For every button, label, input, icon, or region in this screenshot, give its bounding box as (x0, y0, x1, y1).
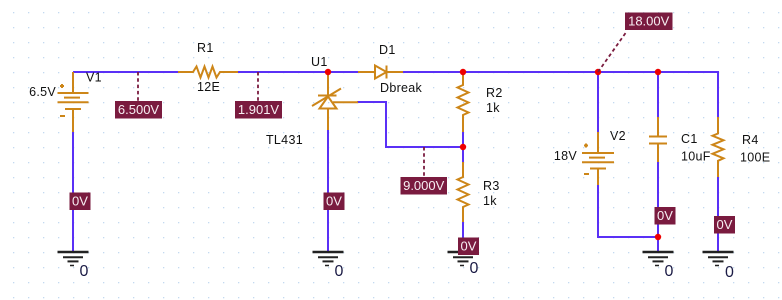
svg-text:0: 0 (725, 264, 734, 281)
svg-text:9.000V: 9.000V (403, 178, 445, 193)
capacitor C1 (649, 117, 667, 162)
resistor R4 (713, 117, 724, 177)
battery V2 (582, 132, 614, 185)
ground C1 (643, 252, 674, 266)
probe label 1.901V (235, 101, 282, 119)
svg-text:0: 0 (470, 260, 479, 277)
node V2-C1 bottom junction (655, 234, 661, 240)
svg-text:1k: 1k (483, 194, 497, 208)
resistor R1 (178, 67, 238, 78)
probe label 6.500V (115, 101, 162, 119)
svg-text:12E: 12E (197, 80, 220, 94)
probe label 0V (R3) (458, 238, 479, 256)
wire V2 top (597, 72, 599, 132)
node U1 cathode on rail (325, 69, 331, 75)
probe dashed lead 1.901V (257, 72, 259, 101)
svg-text:Dbreak: Dbreak (380, 81, 423, 95)
diode D1 (358, 66, 403, 79)
wire U1 ref to R2-R3 node (357, 102, 463, 147)
wire V2 bottom to node under C1 (598, 185, 658, 237)
wire rail V1 to R1 (73, 71, 178, 73)
svg-text:R2: R2 (486, 86, 503, 100)
svg-text:R4: R4 (742, 133, 759, 147)
svg-text:0V: 0V (326, 194, 342, 209)
battery V1 (58, 72, 89, 132)
svg-text:6.500V: 6.500V (118, 102, 160, 117)
probe label 0V (V1) (70, 193, 91, 211)
resistor R3 (458, 162, 469, 222)
svg-text:10uF: 10uF (681, 150, 711, 164)
wire R2 to R3 through node (462, 132, 464, 162)
wire main rail top (73, 72, 718, 251)
wire R3 to ground (462, 222, 464, 251)
svg-text:0V: 0V (72, 194, 88, 209)
wire rail R1 to D1 (238, 71, 358, 73)
probe label 0V (U1) (324, 193, 345, 211)
svg-text:18V: 18V (554, 149, 578, 163)
svg-text:D1: D1 (379, 43, 396, 57)
svg-text:6.5V: 6.5V (29, 85, 56, 99)
ground U1 (313, 252, 344, 266)
wire C1 top (657, 72, 659, 117)
svg-text:C1: C1 (681, 132, 698, 146)
probe label 9.000V (401, 177, 448, 195)
svg-text:0V: 0V (717, 217, 733, 232)
wire V1 to ground (72, 132, 74, 251)
svg-text:R1: R1 (197, 41, 214, 55)
svg-text:0: 0 (665, 263, 674, 280)
svg-text:18.00V: 18.00V (628, 14, 670, 29)
probe dashed lead 18.00V (598, 31, 627, 72)
svg-text:1.901V: 1.901V (238, 102, 280, 117)
svg-text:1k: 1k (486, 101, 500, 115)
probe label 0V (R4) (714, 216, 735, 234)
wire C1 bottom to ground (657, 162, 659, 251)
resistor R2 (458, 74, 469, 132)
wire rail D1 to R4 corner (403, 72, 718, 117)
probe dashed lead 6.500V (137, 72, 139, 101)
probe label 18.00V (625, 13, 673, 31)
svg-text:V2: V2 (610, 129, 626, 143)
svg-text:0V: 0V (461, 239, 477, 254)
TL431 U1 (312, 72, 358, 130)
node R2-R3 ref junction (460, 144, 466, 150)
node D1-R2 on rail (460, 69, 466, 75)
ground V1 (58, 252, 89, 266)
svg-text:0: 0 (80, 263, 89, 280)
wire U1 anode to ground (327, 130, 329, 251)
svg-text:0: 0 (335, 263, 344, 280)
ground R3 (448, 252, 479, 266)
probe dashed lead 9.000V (423, 147, 425, 177)
node C1 on rail (655, 69, 661, 75)
svg-text:R3: R3 (483, 179, 500, 193)
junction dots (325, 69, 661, 240)
svg-text:V1: V1 (86, 71, 102, 85)
wire R4 to ground (717, 177, 719, 251)
svg-text:U1: U1 (311, 55, 328, 69)
svg-text:TL431: TL431 (266, 133, 303, 147)
svg-text:0V: 0V (657, 208, 673, 223)
probe label 0V (C1) (655, 207, 676, 225)
ground R4 (703, 252, 734, 266)
node V2 on rail (595, 69, 601, 75)
svg-text:100E: 100E (740, 151, 770, 165)
